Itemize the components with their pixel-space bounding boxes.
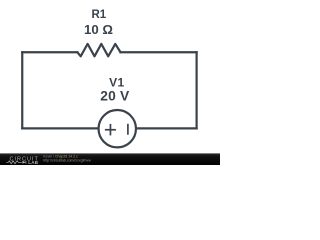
svg-text:20 V: 20 V: [100, 88, 130, 103]
svg-text:http://circuitlab.com/c/cxgfmv: http://circuitlab.com/c/cxgfmvw: [43, 158, 91, 162]
value label 10 Ω: [84, 22, 113, 37]
label V1: [109, 76, 124, 90]
wire: bottom-left segment from left corner to voltage source V1: [22, 127, 98, 129]
footer author/title line: [43, 155, 78, 159]
wire: left vertical segment: [21, 52, 23, 128]
label R1: [91, 9, 106, 21]
CircuitLab logo resistor squiggle: [6, 161, 21, 164]
resistor R1: [77, 44, 120, 56]
CircuitLab logo diode triangle: [22, 161, 26, 164]
wire: right vertical segment: [196, 52, 198, 128]
CircuitLab logo text CIRCUIT: [10, 156, 39, 162]
wire: top-left segment from left corner to resistor R1: [22, 51, 77, 53]
voltage source V1 plus sign: [105, 124, 116, 135]
svg-text:LAB: LAB: [28, 160, 38, 165]
wire: bottom-right segment from voltage source V1 to right corner: [137, 127, 197, 129]
CircuitLab logo text LAB: [28, 160, 38, 165]
footer url line: [43, 158, 91, 162]
wire: top-right segment from resistor R1 to right corner: [121, 51, 197, 53]
svg-text:10 Ω: 10 Ω: [84, 22, 113, 37]
voltage source V1 (circle body): [99, 110, 136, 147]
svg-text:R1: R1: [91, 9, 106, 21]
voltage source V1 minus sign (vertical bar): [127, 124, 129, 135]
footer black bar: [0, 153, 220, 165]
value label 20 V: [100, 88, 130, 103]
